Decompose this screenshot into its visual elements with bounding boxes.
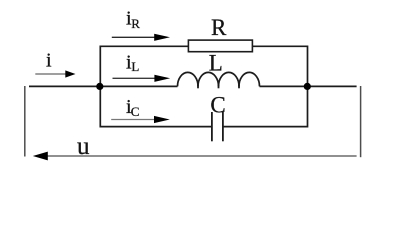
svg-text:u: u: [77, 133, 90, 160]
svg-text:R: R: [131, 16, 140, 31]
arrow iC: [111, 119, 154, 121]
arrow i: [35, 73, 66, 75]
svg-text:C: C: [131, 104, 140, 119]
wire: bottom branch left drop: [100, 86, 212, 126]
arrow iL: [113, 77, 156, 79]
resistor R: [188, 40, 252, 52]
wire: main left segment: [29, 85, 178, 87]
inductor L: [178, 72, 260, 86]
svg-text:L: L: [131, 59, 139, 74]
arrow iR: [112, 36, 155, 38]
node: left junction: [96, 83, 103, 90]
wire: bottom branch right + right riser: [223, 86, 308, 126]
svg-text:i: i: [46, 50, 52, 72]
right terminal: [360, 86, 362, 157]
svg-text:L: L: [209, 50, 223, 75]
svg-text:R: R: [211, 15, 227, 40]
wire: main right segment: [260, 85, 357, 87]
node: right junction: [304, 83, 311, 90]
wire: top branch left riser: [100, 46, 188, 86]
left terminal: [24, 86, 26, 157]
arrow u: [47, 155, 357, 157]
svg-text:C: C: [210, 92, 225, 117]
capacitor C: [211, 112, 213, 141]
wire: top branch right + right riser: [252, 46, 307, 86]
